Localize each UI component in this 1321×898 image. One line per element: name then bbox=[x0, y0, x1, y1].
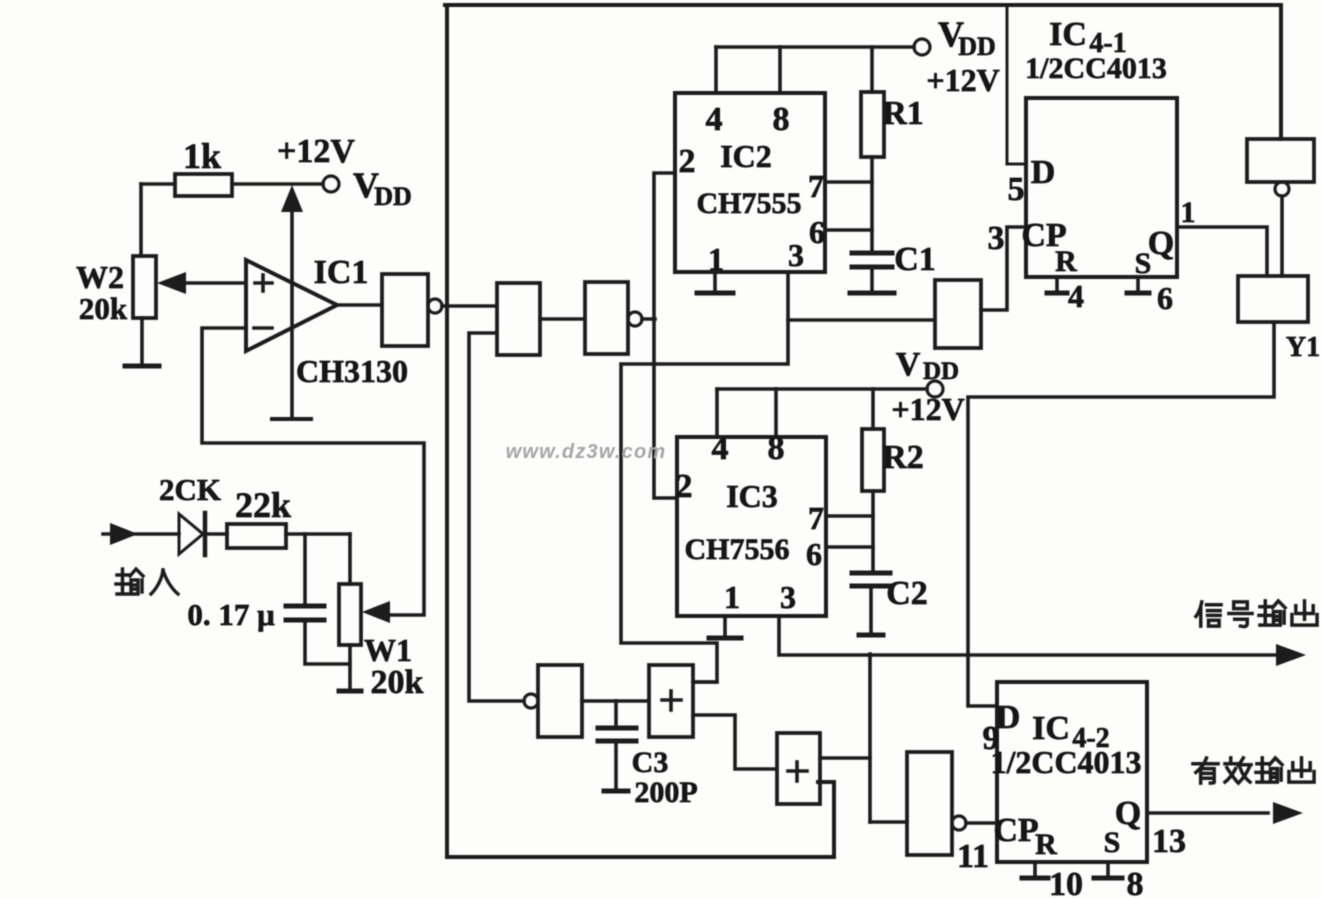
svg-text:+12V: +12V bbox=[926, 62, 999, 98]
svg-text:20k: 20k bbox=[371, 664, 424, 701]
svg-text:CH7556: CH7556 bbox=[685, 533, 790, 566]
svg-text:IC2: IC2 bbox=[720, 138, 772, 174]
svg-text:3: 3 bbox=[988, 220, 1005, 257]
svg-text:DD: DD bbox=[374, 182, 412, 211]
svg-text:1: 1 bbox=[708, 241, 724, 277]
svg-text:11: 11 bbox=[957, 838, 989, 875]
svg-text:R: R bbox=[1035, 828, 1057, 861]
svg-text:+12V: +12V bbox=[277, 133, 355, 170]
svg-text:8: 8 bbox=[768, 430, 785, 467]
svg-text:C3: C3 bbox=[632, 746, 669, 779]
svg-text:IC3: IC3 bbox=[726, 478, 778, 514]
svg-text:2: 2 bbox=[679, 143, 696, 180]
svg-text:W2: W2 bbox=[76, 259, 124, 295]
svg-text:10: 10 bbox=[1049, 866, 1083, 898]
svg-text:5: 5 bbox=[1008, 171, 1025, 208]
svg-text:20k: 20k bbox=[79, 291, 128, 326]
svg-text:200P: 200P bbox=[634, 776, 697, 809]
svg-text:8: 8 bbox=[1127, 866, 1144, 898]
svg-text:W1: W1 bbox=[364, 632, 412, 668]
svg-text:IC: IC bbox=[1032, 710, 1070, 747]
svg-text:+12V: +12V bbox=[891, 391, 964, 427]
svg-text:22k: 22k bbox=[235, 485, 291, 525]
svg-text:3: 3 bbox=[788, 237, 804, 273]
svg-text:0. 17 μ: 0. 17 μ bbox=[187, 597, 275, 632]
svg-text:2: 2 bbox=[676, 468, 693, 505]
svg-text:1/2CC4013: 1/2CC4013 bbox=[1025, 52, 1167, 85]
svg-text:CH7555: CH7555 bbox=[697, 187, 802, 220]
svg-text:C1: C1 bbox=[894, 241, 936, 278]
svg-text:CH3130: CH3130 bbox=[296, 353, 408, 389]
svg-text:4: 4 bbox=[712, 430, 729, 467]
svg-text:CP: CP bbox=[993, 812, 1038, 849]
svg-text:Q: Q bbox=[1148, 225, 1174, 262]
svg-text:IC1: IC1 bbox=[314, 254, 369, 291]
svg-text:1: 1 bbox=[724, 579, 740, 615]
svg-text:6: 6 bbox=[1157, 280, 1173, 316]
svg-text:7: 7 bbox=[808, 168, 824, 204]
svg-text:8: 8 bbox=[773, 101, 790, 138]
svg-text:www.dz3w.com: www.dz3w.com bbox=[506, 441, 667, 463]
svg-text:R: R bbox=[1055, 245, 1077, 278]
svg-text:6: 6 bbox=[809, 214, 825, 250]
svg-text:7: 7 bbox=[808, 500, 824, 536]
svg-text:V: V bbox=[896, 346, 921, 383]
svg-text:1: 1 bbox=[1181, 196, 1196, 229]
svg-text:1k: 1k bbox=[183, 136, 221, 176]
svg-text:DD: DD bbox=[958, 32, 996, 61]
svg-text:IC: IC bbox=[1049, 16, 1087, 53]
svg-text:R2: R2 bbox=[882, 439, 924, 476]
svg-text:R1: R1 bbox=[882, 95, 924, 132]
svg-text:D: D bbox=[1031, 154, 1056, 191]
svg-text:13: 13 bbox=[1152, 823, 1186, 860]
svg-text:6: 6 bbox=[806, 536, 822, 572]
svg-text:Q: Q bbox=[1115, 795, 1141, 832]
svg-text:2CK: 2CK bbox=[159, 472, 221, 507]
svg-text:3: 3 bbox=[780, 579, 796, 615]
svg-text:1/2CC4013: 1/2CC4013 bbox=[990, 744, 1141, 780]
svg-text:4: 4 bbox=[1068, 278, 1084, 314]
svg-text:C2: C2 bbox=[886, 575, 928, 612]
svg-text:Y1: Y1 bbox=[1286, 332, 1320, 363]
svg-text:DD: DD bbox=[923, 358, 959, 385]
svg-text:4: 4 bbox=[706, 101, 723, 138]
